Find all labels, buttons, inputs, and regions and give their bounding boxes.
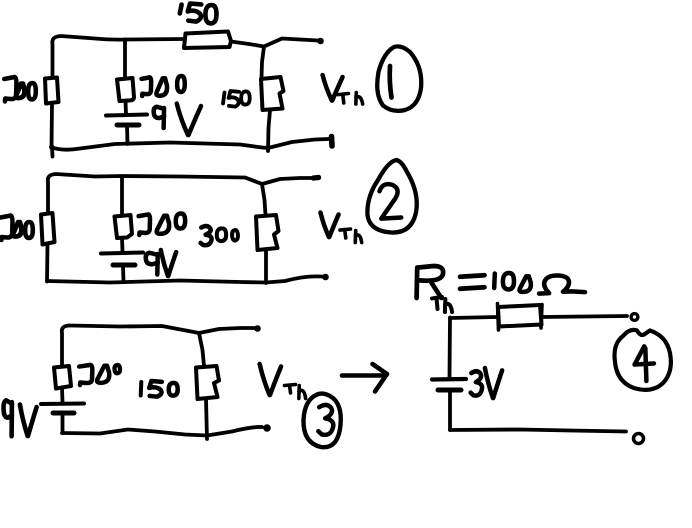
resistor R7 300 (right, circuit 2) — [256, 215, 279, 250]
wire right branch down circuit 3 — [199, 333, 204, 366]
label 9V circuit 2 — [146, 253, 158, 265]
node terminal bottom-right circuit 1 — [329, 137, 335, 147]
label 300 right circuit 2 — [201, 226, 212, 245]
wire left side circuit 4 — [448, 318, 452, 378]
wire top-left loop circuit 2 — [48, 174, 314, 213]
wire battery to bottom circuit 2 — [121, 266, 125, 281]
label 150 circuit 3 — [139, 382, 144, 396]
wire right branch down circuit 1 — [262, 47, 265, 79]
resistor R2 300 (middle, circuit 1) — [117, 78, 134, 101]
resistor R3 150 (right, circuit 1) — [261, 77, 284, 110]
arrow to thevenin equivalent — [342, 373, 385, 378]
wire right branch down circuit 2 — [262, 184, 266, 215]
wire bottom circuit 1 — [51, 139, 328, 150]
label 3V circuit 4 — [471, 371, 482, 395]
wire left side down circuit 2 — [45, 244, 49, 282]
battery B4 3V long plate — [432, 377, 466, 382]
wire resistor R1 to output node, circuit 1 — [231, 39, 318, 47]
wire resistor to terminal circuit 4 — [542, 316, 627, 317]
wire middle branch top circuit 2 — [120, 177, 124, 216]
resistor R9 150 (right, circuit 3) — [196, 366, 219, 399]
resistor RTh box circuit 4 — [498, 304, 499, 331]
wire top-left loop circuit 3 — [62, 326, 254, 367]
label VTh circuit 3 — [260, 364, 270, 395]
resistor R6 300 (middle, circuit 2) — [115, 215, 133, 238]
wire below right resistor circuit 2 — [264, 250, 268, 283]
battery B1 9V short plate — [117, 123, 139, 128]
circled 3 — [303, 394, 340, 448]
wire bottom circuit 2 — [47, 276, 322, 282]
node terminal bottom-right circuit 3 — [263, 424, 271, 432]
circled 2 — [367, 160, 416, 233]
wire battery to bottom circuit 1 — [125, 126, 129, 144]
wire below right resistor circuit 1 — [268, 110, 270, 151]
circled 4 — [615, 330, 671, 390]
battery B1 9V long plate — [106, 115, 147, 116]
label 300 middle circuit 2 — [139, 214, 150, 235]
wire below right resistor circuit 3 — [206, 399, 207, 439]
wire left side down circuit 1 — [50, 104, 54, 148]
node terminal bottom-right circuit 2 — [322, 274, 329, 281]
label 9V circuit 1 — [154, 107, 164, 118]
label RTh = 100 ohm — [417, 266, 444, 298]
node terminal top-right circuit 3 — [254, 325, 261, 332]
open terminal bottom-right circuit 4 — [634, 434, 644, 444]
battery B4 3V short plate — [438, 388, 461, 393]
wire bottom circuit 3 — [62, 427, 262, 436]
circled 1 — [377, 46, 421, 110]
wire resistor to battery circuit 2 — [120, 238, 124, 252]
node terminal top-right circuit 1 — [317, 38, 324, 45]
label 300 left circuit 1 — [4, 77, 16, 102]
resistor R8 300 (left, circuit 3) — [54, 366, 71, 389]
resistor R5 300 (left, circuit 2) — [41, 213, 55, 245]
wire top circuit 4 — [450, 317, 497, 318]
wire resistor to battery circuit 1 — [124, 101, 128, 114]
label 300 middle circuit 1 — [142, 77, 152, 96]
battery B2 9V long plate — [101, 253, 143, 254]
label VTh circuit 2 — [320, 213, 328, 238]
resistor R4 300 (left, circuit 1) — [45, 78, 59, 104]
open terminal top-right circuit 4 — [631, 314, 638, 321]
battery B3 9V long plate — [41, 402, 84, 407]
wire top-left loop circuit 1 — [52, 36, 183, 77]
label 150 top resistor circuit 1 — [180, 5, 182, 14]
label 300 left circuit 2 — [1, 216, 13, 241]
wire battery to bottom circuit 3 — [61, 414, 65, 433]
label VTh circuit 1 — [323, 75, 332, 101]
battery B3 9V short plate — [53, 411, 74, 416]
node terminal top-right circuit 2 — [314, 175, 319, 181]
label 9V circuit 3 — [4, 400, 12, 417]
battery B2 9V short plate — [113, 263, 135, 268]
label 150 right resistor circuit 1 — [223, 93, 225, 104]
wire left overshoot bottom circuit 1 — [50, 146, 54, 157]
label 300 circuit 3 — [79, 365, 92, 385]
wire bottom circuit 4 — [450, 430, 626, 432]
resistor R1 150 (top, circuit 1) — [184, 32, 231, 49]
wire resistor to battery circuit 3 — [60, 389, 64, 403]
wire battery to bottom circuit 4 — [448, 391, 452, 430]
wire middle branch top circuit 1 — [123, 40, 127, 79]
